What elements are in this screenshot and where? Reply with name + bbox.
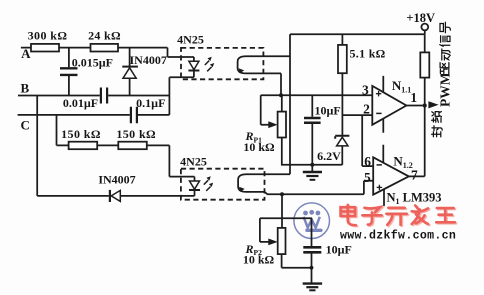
LED of U2 bar bbox=[188, 70, 199, 72]
svg-text:3: 3 bbox=[362, 82, 369, 97]
resistor 5.1k leads bbox=[341, 34, 343, 136]
svg-text:150 kΩ: 150 kΩ bbox=[61, 127, 101, 141]
svg-text:B: B bbox=[20, 81, 29, 96]
watermark logo W circle bbox=[294, 203, 330, 239]
node junction dot RP2 top bbox=[280, 192, 284, 196]
svg-text:IN4007: IN4007 bbox=[130, 53, 167, 67]
wire ground bus bbox=[281, 164, 342, 166]
wire B bbox=[18, 95, 169, 97]
capacitor 0.015uF leads bbox=[68, 48, 70, 96]
op-amp N1.1 plus bbox=[376, 91, 381, 96]
wire B drop to diode D2 net bbox=[36, 96, 38, 196]
potentiometer RP2 top lead bbox=[281, 194, 283, 228]
potentiometer RP2 wiper arrowhead bbox=[268, 239, 277, 246]
LED of U3 triangle bbox=[190, 181, 200, 189]
svg-text:N1.1: N1.1 bbox=[392, 78, 411, 95]
resistor 5.1k box bbox=[338, 45, 347, 73]
node junction dot RP2 bottom bbox=[310, 266, 314, 270]
LED of U3 anode lead bbox=[193, 177, 195, 181]
svg-text:4N25: 4N25 bbox=[177, 33, 204, 47]
svg-text:5: 5 bbox=[364, 170, 371, 185]
op-amp N1.2 plus bbox=[377, 185, 382, 190]
resistor 24k box bbox=[91, 44, 119, 52]
svg-text:5.1 kΩ: 5.1 kΩ bbox=[350, 47, 386, 61]
wire pin2 reference line bbox=[342, 114, 372, 116]
node junction dot output pin1 bbox=[423, 103, 427, 107]
potentiometer RP1 wiper arrowhead bbox=[268, 121, 277, 128]
rotated label PWM drive signal bbox=[438, 22, 453, 107]
op-amp N1.1 triangle bbox=[372, 86, 406, 125]
ground symbol upper bbox=[311, 165, 313, 172]
capacitor 0.1uF plates bbox=[131, 107, 137, 123]
zener diode 6.2V triangle bbox=[337, 137, 348, 146]
node X vertical joining B C and LED1 cathode bbox=[168, 77, 170, 115]
resistor 150k second box bbox=[118, 142, 147, 150]
svg-text:24 kΩ: 24 kΩ bbox=[88, 29, 121, 43]
diode D2 bar bbox=[109, 190, 111, 202]
capacitor 0.01uF plates bbox=[101, 88, 107, 104]
svg-text:10µF: 10µF bbox=[314, 103, 340, 117]
op-amp N1.1 minus bbox=[376, 112, 381, 114]
wire C bbox=[18, 114, 170, 116]
op-amp N1.2 triangle bbox=[373, 157, 409, 194]
node junction dot opto1 emitter bbox=[279, 93, 283, 97]
terminal +18V circle bbox=[421, 24, 428, 31]
svg-text:IN4007: IN4007 bbox=[98, 172, 135, 186]
LED of U2 triangle bbox=[189, 61, 199, 69]
wire +18V rail bbox=[290, 33, 425, 35]
resistor 150k first box bbox=[69, 142, 98, 150]
LED of U2 anode lead bbox=[192, 57, 194, 61]
LED of U2 cathode lead bbox=[169, 72, 194, 78]
svg-text:0.1µF: 0.1µF bbox=[136, 96, 165, 110]
wire diode D2 net bbox=[37, 195, 194, 197]
diode D1 IN4007 leads bbox=[129, 48, 131, 96]
capacitor 0.015uF plates bbox=[60, 68, 78, 75]
phototransistor U2 emitter wire down bbox=[280, 73, 282, 95]
ground symbol lower bbox=[303, 282, 322, 284]
svg-text:10µF: 10µF bbox=[326, 243, 352, 257]
svg-text:C: C bbox=[21, 117, 30, 132]
potentiometer RP2 bottom lead bbox=[282, 254, 312, 268]
node pin3 line bbox=[261, 94, 373, 96]
svg-text:A: A bbox=[21, 46, 31, 61]
optocoupler U2 4N25 dashed box bbox=[181, 48, 263, 79]
wire op-amp N1.1 output bbox=[406, 105, 424, 107]
potentiometer RP1 box bbox=[278, 112, 286, 138]
diode D1 bar bbox=[122, 66, 138, 68]
svg-text:+18V: +18V bbox=[406, 11, 435, 25]
resistor pull-up right box bbox=[420, 52, 429, 77]
collector rail vertical x290 bbox=[289, 34, 291, 174]
light arrows of U2 bbox=[205, 61, 212, 72]
phototransistor of U2 bbox=[238, 56, 290, 73]
potentiometer RP1 wiper bbox=[261, 95, 269, 124]
phototransistor U2 emitter arrow bbox=[239, 68, 245, 73]
wire RP2 wiper and cap hook bbox=[260, 218, 312, 242]
capacitor C10a 10uF leads bbox=[311, 95, 313, 165]
wire pin2 to pin6 bbox=[362, 115, 373, 166]
svg-text:PWM: PWM bbox=[438, 72, 453, 107]
node junction dot ground bus bbox=[310, 163, 314, 167]
rotated label block (fengsuo) bbox=[432, 112, 443, 137]
phototransistor of U3 bbox=[238, 174, 290, 192]
arrow PWM signal bbox=[428, 101, 438, 108]
optocoupler U3 4N25 dashed box bbox=[181, 169, 265, 200]
phototransistor U3 emitter arrow bbox=[239, 187, 245, 192]
svg-text:150 kΩ: 150 kΩ bbox=[116, 127, 156, 141]
svg-text:N1 LM393: N1 LM393 bbox=[387, 190, 442, 206]
capacitor C10b plates bbox=[303, 247, 321, 252]
svg-text:2: 2 bbox=[363, 101, 370, 116]
LED of U3 bar bbox=[189, 189, 200, 191]
svg-text:0.015µF: 0.015µF bbox=[72, 55, 113, 69]
potentiometer RP2 box bbox=[278, 228, 286, 254]
wire A bbox=[21, 48, 192, 57]
svg-text:4N25: 4N25 bbox=[180, 154, 207, 168]
zener diode 6.2V lower lead bbox=[341, 146, 343, 165]
wire op-amp N1.2 output bbox=[409, 175, 425, 177]
potentiometer RP1 leads bbox=[281, 95, 283, 165]
svg-text:7: 7 bbox=[411, 167, 418, 182]
zener diode 6.2V bar bbox=[335, 136, 349, 139]
watermark text dianzi kaifa wang bbox=[342, 206, 456, 226]
svg-text:10 kΩ: 10 kΩ bbox=[243, 140, 275, 154]
diode D1 triangle bbox=[123, 68, 136, 78]
capacitor C10b 10uF leads bbox=[311, 218, 313, 283]
resistor pull-up right leads bbox=[424, 34, 426, 176]
op-amp N1.2 power stubs bbox=[382, 145, 385, 206]
capacitor C10a plates bbox=[304, 118, 321, 123]
op-amp N1.1 power stubs bbox=[382, 76, 384, 133]
LED of U3 cathode lead bbox=[194, 191, 196, 196]
op-amp N1.2 minus bbox=[377, 164, 382, 166]
svg-text:10 kΩ: 10 kΩ bbox=[243, 252, 275, 266]
diode D2 triangle bbox=[111, 190, 120, 201]
svg-text:0.01µF: 0.01µF bbox=[63, 96, 98, 110]
svg-text:www.dzkfw.com.cn: www.dzkfw.com.cn bbox=[340, 230, 456, 243]
wire pin5 net emitter to comparator bbox=[258, 181, 373, 195]
light arrows of U3 bbox=[204, 180, 211, 191]
resistor 300k box bbox=[31, 44, 59, 52]
wire terminal stub bbox=[424, 30, 426, 34]
wire C to 150k chain bbox=[57, 115, 193, 177]
svg-text:300 kΩ: 300 kΩ bbox=[28, 29, 68, 43]
svg-text:N1.2: N1.2 bbox=[393, 154, 412, 171]
svg-text:6.2V: 6.2V bbox=[317, 149, 341, 163]
svg-text:1: 1 bbox=[410, 90, 417, 105]
svg-text:6: 6 bbox=[364, 154, 371, 169]
